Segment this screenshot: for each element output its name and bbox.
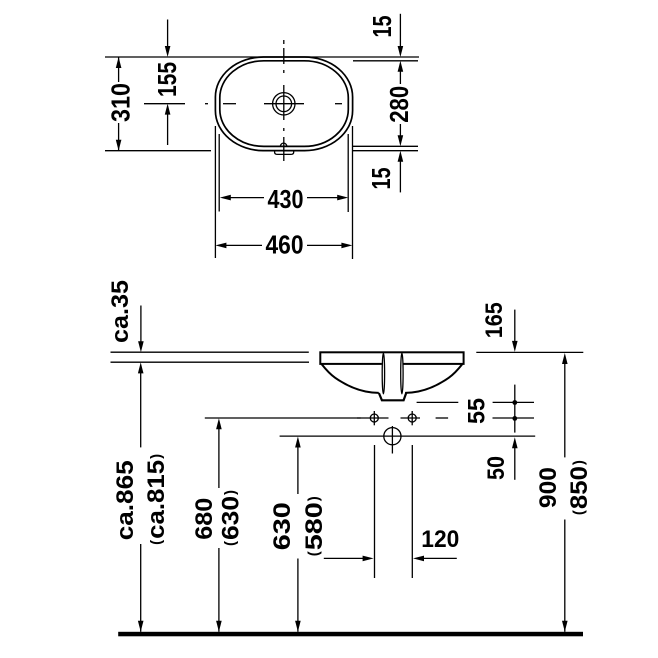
faucet hole right <box>408 414 416 422</box>
dimension 50 <box>483 437 517 480</box>
countertop bottom line (left) <box>111 361 310 363</box>
basin bowl outline right <box>405 364 462 393</box>
svg-text:15: 15 <box>367 16 397 38</box>
svg-text:): ) <box>306 496 323 501</box>
dimension 120 <box>324 526 460 561</box>
overflow slot below outer rim <box>275 151 294 155</box>
svg-text:580: 580 <box>301 502 328 550</box>
faucet hole line <box>205 417 534 419</box>
countertop top line (left) <box>111 351 309 353</box>
drain inner circle <box>276 96 292 112</box>
svg-text:430: 430 <box>268 184 304 214</box>
extension line: top of basin (y=57) <box>105 56 419 58</box>
faucet hole crosshair left <box>373 411 375 425</box>
extension line: left outer vertical (x=215.4) <box>214 126 216 258</box>
svg-text:120: 120 <box>421 526 459 553</box>
dimension ca.865 (ca.815) <box>112 362 170 631</box>
extension line: left inner vertical (x=219.2) <box>218 134 220 212</box>
extension line: inner rim top right (y=60.8) <box>353 60 418 62</box>
centerline vertical <box>283 40 285 161</box>
floor line <box>118 632 583 637</box>
dimension 55 chain <box>463 385 517 433</box>
svg-text:15: 15 <box>366 168 396 190</box>
basin inner rim (top view oval) <box>220 61 348 147</box>
svg-text:ca.35: ca.35 <box>107 280 134 343</box>
svg-text:310: 310 <box>106 83 136 122</box>
svg-text:): ) <box>148 454 165 459</box>
extension line: outer bottom left (y=150.7) <box>105 150 211 152</box>
svg-text:ca.865: ca.865 <box>112 460 139 540</box>
svg-text:900: 900 <box>535 467 562 508</box>
svg-text:460: 460 <box>266 230 304 260</box>
svg-text:(: ( <box>306 551 323 556</box>
svg-text:630: 630 <box>269 502 296 550</box>
svg-text:55: 55 <box>463 398 490 424</box>
countertop line (right) <box>476 351 583 353</box>
overflow channel right wall <box>401 353 403 394</box>
overflow bump on inner bottom rim <box>280 143 286 146</box>
extension line: inner rim bottom right (y=146.3) <box>353 145 418 147</box>
drain outer circle <box>273 93 295 115</box>
svg-text:850: 850 <box>566 466 593 509</box>
svg-text:(: ( <box>571 510 588 515</box>
dimension 165 <box>481 302 518 352</box>
dimension 680 (630) <box>191 418 245 632</box>
svg-text:(: ( <box>148 540 165 545</box>
dimension 15 (top right) <box>367 14 403 57</box>
basin outer rim (top view oval) <box>215 57 352 151</box>
basin bowl outline left <box>322 364 379 393</box>
svg-text:): ) <box>222 490 239 495</box>
centerline horizontal <box>144 103 342 105</box>
svg-text:ca.815: ca.815 <box>143 460 170 539</box>
svg-text:): ) <box>571 460 588 465</box>
dimension 310 (left) <box>106 57 136 151</box>
dimension 630 (580) <box>269 437 328 632</box>
extension line faucet right (120) <box>411 445 413 578</box>
extension line faucet left (120) <box>374 445 376 578</box>
extension line: right outer vertical (x=352.5) <box>352 126 354 259</box>
dimension 15 (bottom right) <box>366 151 403 193</box>
white gap in rim behind overflow column <box>382 362 403 366</box>
svg-text:50: 50 <box>483 456 510 480</box>
drain boss <box>379 393 406 400</box>
basin bottom reference line <box>417 401 459 403</box>
drain hole circle <box>384 428 401 445</box>
dimension 460 <box>215 230 352 260</box>
faucet hole left <box>370 414 378 422</box>
svg-text:155: 155 <box>152 62 182 97</box>
drain line <box>280 435 536 437</box>
dimension ca.35 <box>107 280 144 352</box>
dimension 155 (left inner) <box>152 20 182 146</box>
basin rim (front view) <box>320 352 463 364</box>
svg-text:165: 165 <box>481 302 508 338</box>
extension line: outer bottom right (y=150.7) <box>353 150 418 152</box>
svg-text:630: 630 <box>218 496 245 540</box>
drain crosshair vertical <box>391 426 393 454</box>
svg-text:280: 280 <box>384 86 414 123</box>
dimension 900 (850) <box>535 353 593 632</box>
overflow channel left wall <box>382 353 384 394</box>
dimension 430 <box>220 184 348 214</box>
svg-text:680: 680 <box>191 498 218 540</box>
svg-text:(: ( <box>222 541 239 546</box>
dimension 280 (right) <box>384 61 414 147</box>
extension line: right inner vertical (x=348.2) <box>347 134 349 212</box>
faucet hole crosshair right <box>411 411 413 425</box>
